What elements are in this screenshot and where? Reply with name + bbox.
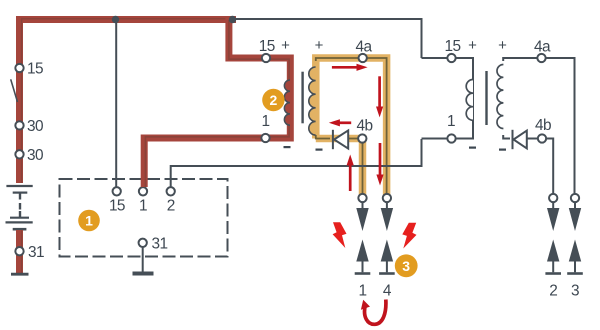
- svg-text:4: 4: [383, 283, 392, 300]
- coil A terminal 4a: [356, 39, 373, 63]
- control unit N1 dashed box: [60, 179, 228, 257]
- spark plug 3: [567, 194, 583, 300]
- return path arc (plug 4 to plug 1 through engine): [361, 300, 386, 325]
- svg-text:31: 31: [28, 244, 44, 261]
- svg-text:15: 15: [27, 61, 43, 78]
- coil B terminal 1: [447, 113, 456, 143]
- svg-text:1: 1: [359, 283, 367, 300]
- current arrow (toward diode, leftward): [329, 119, 351, 126]
- wire: ECU 31 to ground: [142, 248, 144, 272]
- svg-text:+: +: [498, 37, 507, 54]
- svg-text:15: 15: [445, 38, 461, 55]
- current arrow (secondary top rail, rightward): [332, 64, 368, 71]
- wire: red battery bus (left vertical leg + top horizontal rail): [20, 19, 237, 183]
- wire: red primary loop of coil A (descender, top rail, winding side, bottom rail, leg to ECU 1): [144, 16, 290, 187]
- terminal 30 (upper): [15, 118, 43, 135]
- ground (ECU): [133, 272, 154, 276]
- svg-text:15: 15: [109, 198, 125, 215]
- battery G1: [6, 186, 33, 229]
- badge 1: [78, 210, 100, 232]
- coil A terminal 15: [259, 38, 275, 62]
- svg-text:1: 1: [139, 198, 147, 215]
- label - (coil B primary): [469, 147, 476, 149]
- svg-text:2: 2: [270, 92, 278, 108]
- coil A terminal 1: [261, 113, 269, 142]
- coil B primary winding bumps: [466, 80, 473, 121]
- terminal 15 (ignition switch): [15, 61, 43, 78]
- coil A terminal 4b: [357, 117, 373, 142]
- switch blade: [11, 79, 18, 102]
- svg-text:1: 1: [447, 113, 455, 130]
- wire: thin gray drop from junction to ECU terminal 15: [115, 19, 117, 187]
- diode of coil A (cathode bar + triangle): [333, 130, 348, 149]
- svg-text:4a: 4a: [534, 39, 551, 56]
- svg-text:+: +: [468, 37, 477, 54]
- label - (coil A secondary): [316, 149, 323, 151]
- wire: gray conductor inside tan path: [316, 58, 387, 195]
- badge 2: [262, 89, 284, 111]
- coil B secondary winding bumps: [497, 65, 503, 129]
- svg-text:+: +: [281, 37, 290, 54]
- svg-text:1: 1: [262, 113, 270, 130]
- svg-text:4b: 4b: [357, 117, 373, 134]
- ECU terminal 2: [167, 187, 175, 215]
- diode of coil B: [513, 130, 527, 149]
- coil A secondary winding bumps: [309, 67, 316, 135]
- coil B terminal 4b: [535, 117, 551, 143]
- svg-text:31: 31: [152, 236, 168, 253]
- coil B primary loop: [422, 58, 474, 139]
- coil B terminal 4a: [534, 39, 551, 63]
- label - (coil B secondary): [499, 149, 506, 151]
- terminal 30 (lower): [15, 147, 43, 164]
- spark flash (right of plug 4): [402, 223, 416, 249]
- svg-text:1: 1: [85, 213, 93, 229]
- wire: thin gray top feed to coil B: [233, 19, 422, 58]
- svg-text:3: 3: [402, 258, 410, 274]
- coil A primary winding bumps: [284, 80, 290, 125]
- spark plug 1: [355, 194, 371, 300]
- svg-text:2: 2: [167, 198, 175, 215]
- svg-text:30: 30: [27, 147, 43, 164]
- spark plug 2: [545, 194, 561, 300]
- node: junction dot A: [112, 16, 119, 23]
- svg-text:4a: 4a: [356, 39, 373, 56]
- coil B core: [485, 71, 487, 125]
- badge 3: [395, 254, 418, 277]
- svg-text:30: 30: [27, 118, 43, 135]
- ground (battery): [11, 273, 29, 276]
- current arrow (secondary right side upper, downward): [376, 76, 383, 117]
- coil A core: [301, 72, 303, 124]
- ECU terminal 31: [139, 236, 168, 253]
- ECU terminal 1: [139, 187, 147, 215]
- svg-text:+: +: [315, 37, 324, 54]
- svg-text:3: 3: [571, 283, 579, 300]
- svg-text:2: 2: [549, 283, 557, 300]
- current arrow (return from plug 1, upward): [347, 155, 354, 192]
- svg-text:4b: 4b: [535, 117, 551, 134]
- spark plug 4: [379, 194, 395, 300]
- wire: tan highlighted secondary path of coil A: [316, 58, 387, 198]
- wire: gray line ECU 2 to coil B terminal 1: [171, 139, 422, 187]
- label - (coil A primary): [284, 146, 291, 148]
- current arrow (secondary right side lower, downward): [376, 143, 383, 186]
- svg-text:15: 15: [259, 38, 275, 55]
- spark flash (left of plug 1): [333, 222, 347, 248]
- coil B secondary path: [503, 58, 574, 193]
- coil B terminal 15: [445, 38, 461, 62]
- node: junction dot B: [229, 16, 236, 23]
- ECU terminal 15: [109, 187, 125, 215]
- wire: red battery negative lead: [16, 230, 23, 273]
- terminal 31: [15, 244, 44, 261]
